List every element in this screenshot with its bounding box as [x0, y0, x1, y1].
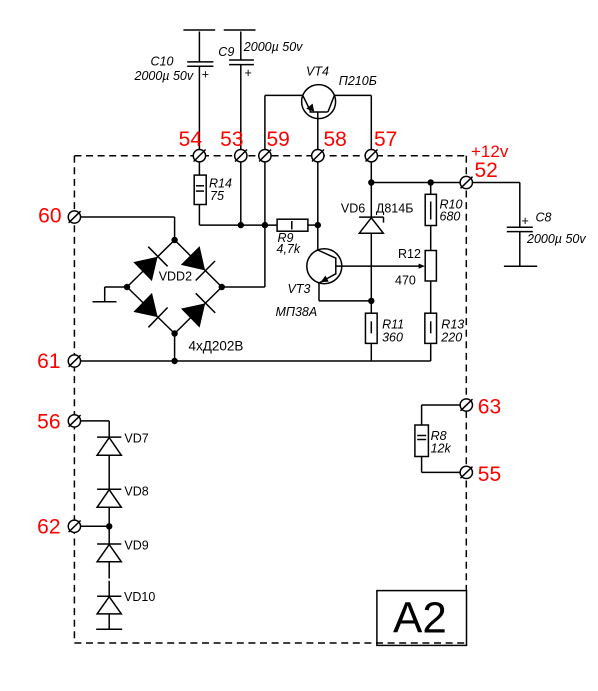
wire 56 to diode chain — [80, 421, 109, 437]
diode VD8 — [97, 485, 149, 508]
svg-text:4хД202В: 4хД202В — [189, 339, 244, 354]
svg-text:52: 52 — [475, 159, 498, 182]
svg-text:75: 75 — [210, 189, 224, 203]
node junction R10-rail — [428, 179, 434, 185]
diode VD10 — [97, 590, 155, 614]
svg-text:VD9: VD9 — [124, 539, 148, 553]
svg-text:470: 470 — [395, 273, 416, 287]
wire 62 to diode chain — [80, 525, 109, 527]
enclosure dashed border top — [74, 155, 466, 157]
wire VT4 collector to terminal 57 — [334, 95, 371, 149]
svg-text:МП38А: МП38А — [276, 305, 318, 319]
terminal 63 — [460, 399, 472, 411]
node bridge top — [171, 237, 177, 243]
terminal 60 — [68, 211, 80, 223]
svg-text:+: + — [245, 66, 252, 80]
wire R9 right to 58 column — [308, 224, 318, 226]
wire 57 column to +12v rail — [370, 162, 372, 183]
node junction 57-rail — [368, 179, 374, 185]
wire VT4 base to terminal 58 — [317, 112, 319, 150]
module box A2 — [377, 591, 467, 646]
wire bridge right to 59 column — [222, 286, 265, 288]
svg-text:2000µ 50v: 2000µ 50v — [134, 69, 194, 83]
wire R10 to R12 — [430, 226, 432, 251]
diode VD9 — [97, 539, 149, 562]
resistor R10 — [425, 183, 462, 226]
svg-text:54: 54 — [179, 128, 203, 151]
enclosure dashed border right — [465, 156, 467, 591]
terminal 59 — [259, 150, 271, 162]
terminal 57 — [365, 150, 377, 162]
wire terminal 60 to bridge top — [80, 217, 174, 240]
node bridge left — [124, 284, 130, 290]
wire VD9 to VD10 — [108, 562, 110, 596]
node junction 62-chain — [106, 523, 112, 529]
zener diode VD6 — [341, 183, 414, 301]
svg-text:VD10: VD10 — [124, 590, 155, 604]
wire C10 to terminal 54 — [198, 66, 200, 150]
svg-text:12k: 12k — [431, 442, 452, 456]
svg-text:220: 220 — [440, 330, 462, 344]
terminal 58 — [312, 150, 324, 162]
svg-text:680: 680 — [440, 210, 461, 224]
wire +12v rail — [371, 182, 520, 184]
svg-text:C10: C10 — [151, 55, 174, 69]
capacitor C9 — [218, 30, 303, 80]
resistor R14 — [194, 162, 232, 226]
node junction 59-rail — [262, 222, 268, 228]
svg-text:4,7k: 4,7k — [277, 242, 301, 256]
svg-text:59: 59 — [267, 128, 290, 151]
end bar below VD10 — [96, 628, 122, 630]
wire 59 down through rail to bridge — [264, 162, 266, 288]
svg-text:+: + — [522, 214, 529, 228]
svg-text:VD8: VD8 — [124, 485, 148, 499]
svg-text:+: + — [202, 68, 209, 82]
capacitor C8 — [504, 183, 586, 267]
enclosure dashed border bottom — [74, 642, 466, 644]
terminal 61 — [68, 355, 80, 367]
node junction 53-rail — [238, 222, 244, 228]
wire bridge bottom to lower rail — [174, 334, 176, 362]
terminal 54 — [193, 150, 205, 162]
wire VD8 to VD9 — [108, 507, 110, 544]
svg-text:56: 56 — [37, 411, 60, 434]
wire VT3 base to R12 wiper arrow — [336, 264, 425, 269]
svg-text:VT4: VT4 — [306, 65, 329, 79]
terminal 53 — [235, 150, 247, 162]
node bridge right — [219, 284, 225, 290]
svg-text:П210Б: П210Б — [339, 74, 377, 88]
node junction VD6-R11-emitter — [368, 298, 374, 304]
svg-text:VT3: VT3 — [288, 282, 311, 296]
wire rail under 54/53/59 — [199, 224, 277, 226]
svg-text:55: 55 — [478, 463, 501, 486]
svg-text:C8: C8 — [536, 210, 552, 224]
wire R12 to R13 — [430, 281, 432, 313]
transistor VT3 — [276, 249, 342, 319]
wire VD10 to end bar — [108, 614, 110, 629]
diode VD7 — [97, 432, 149, 456]
svg-text:58: 58 — [324, 128, 347, 151]
svg-text:2000µ 50v: 2000µ 50v — [526, 232, 586, 246]
wire VD7 to VD8 — [108, 455, 110, 489]
svg-text:57: 57 — [374, 128, 397, 151]
resistor R8 — [415, 425, 452, 457]
svg-text:61: 61 — [37, 350, 60, 373]
node junction bridge-lower rail — [171, 358, 177, 364]
svg-text:C9: C9 — [218, 45, 234, 59]
svg-text:R12: R12 — [398, 247, 421, 261]
enclosure dashed border left — [73, 156, 75, 643]
resistor R11 — [365, 301, 404, 361]
svg-text:53: 53 — [220, 128, 243, 151]
svg-text:VD7: VD7 — [124, 432, 148, 446]
resistor R13 — [425, 313, 464, 361]
terminal 62 — [68, 520, 80, 532]
svg-text:60: 60 — [38, 205, 61, 228]
svg-text:R13: R13 — [441, 317, 464, 331]
svg-text:R11: R11 — [382, 317, 404, 331]
wire R8 to terminal 55 — [422, 457, 461, 473]
svg-text:63: 63 — [478, 396, 501, 419]
resistor R9 — [277, 219, 308, 256]
svg-text:Д814Б: Д814Б — [376, 202, 414, 216]
svg-text:VDD2: VDD2 — [159, 270, 192, 284]
resistor R12 trimmer — [395, 247, 436, 288]
svg-text:VD6: VD6 — [341, 202, 365, 216]
wire VT4 emitter to terminal 59 — [265, 95, 303, 149]
svg-text:2000µ 50v: 2000µ 50v — [243, 40, 303, 54]
node bridge bottom — [171, 330, 177, 336]
wire lower rail — [80, 360, 431, 362]
svg-text:62: 62 — [37, 516, 60, 539]
terminal 56 — [68, 415, 80, 427]
wire 63 to R8 — [422, 405, 461, 425]
ground chassis — [93, 287, 128, 302]
diode bridge VDD2 — [127, 240, 243, 354]
capacitor C10 — [134, 30, 216, 83]
svg-text:A2: A2 — [393, 594, 447, 643]
wire 53 down to rail — [240, 162, 242, 226]
wire C9 to terminal 53 — [240, 65, 242, 150]
transistor VT4 — [302, 65, 377, 119]
terminal 55 — [460, 466, 472, 478]
terminal 52 — [460, 176, 472, 188]
wire VT3 emitter down and right — [319, 283, 371, 301]
svg-text:360: 360 — [382, 330, 403, 344]
wire 58 column down to VT3 collector — [317, 162, 319, 251]
node junction R9-58 column — [315, 222, 321, 228]
